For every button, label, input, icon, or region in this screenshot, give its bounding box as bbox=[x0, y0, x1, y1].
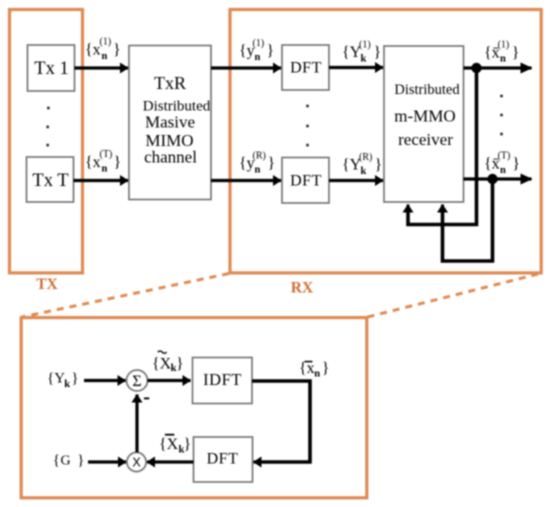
svg-text:receiver: receiver bbox=[398, 130, 453, 149]
svg-text:k: k bbox=[64, 379, 70, 390]
svg-text:TxR: TxR bbox=[154, 73, 186, 93]
svg-text:m-MMO: m-MMO bbox=[394, 107, 455, 126]
svg-text:(T): (T) bbox=[100, 149, 113, 160]
svg-text:RX: RX bbox=[291, 280, 314, 297]
svg-text:k: k bbox=[361, 54, 367, 65]
svg-text:Tx 1: Tx 1 bbox=[34, 59, 68, 79]
svg-text:}: } bbox=[267, 43, 275, 60]
svg-text:{: { bbox=[53, 453, 60, 469]
svg-text:IDFT: IDFT bbox=[203, 370, 242, 389]
svg-text:(1): (1) bbox=[498, 39, 510, 50]
svg-text:}: } bbox=[322, 360, 330, 377]
svg-text:(1): (1) bbox=[100, 37, 112, 48]
svg-text:{Y: {Y bbox=[47, 371, 65, 387]
svg-text:DFT: DFT bbox=[207, 451, 239, 468]
svg-text:n: n bbox=[500, 165, 506, 176]
svg-text:{x: {x bbox=[85, 42, 101, 59]
svg-text:TX: TX bbox=[36, 276, 58, 293]
svg-text:(R): (R) bbox=[253, 151, 266, 162]
svg-text:}: } bbox=[71, 371, 78, 387]
svg-text:{X: {X bbox=[152, 355, 172, 372]
svg-text:}: } bbox=[512, 44, 520, 61]
svg-text:n: n bbox=[102, 51, 108, 62]
svg-text:}: } bbox=[176, 355, 184, 372]
svg-text:{X: {X bbox=[159, 436, 179, 453]
svg-text:n: n bbox=[500, 54, 506, 65]
svg-text:}: } bbox=[77, 453, 84, 469]
svg-text:(1): (1) bbox=[253, 38, 265, 49]
svg-text:G: G bbox=[61, 453, 71, 468]
svg-text:n: n bbox=[255, 52, 261, 63]
svg-text:Tx T: Tx T bbox=[32, 171, 68, 191]
svg-text:n: n bbox=[255, 164, 261, 175]
svg-text:k: k bbox=[361, 166, 367, 177]
svg-text:X: X bbox=[132, 456, 141, 470]
svg-text:}: } bbox=[114, 154, 122, 171]
svg-text:}: } bbox=[374, 44, 382, 61]
svg-text:channel: channel bbox=[144, 148, 197, 167]
svg-text:n: n bbox=[102, 163, 108, 174]
svg-text:DFT: DFT bbox=[290, 60, 322, 77]
svg-text:}: } bbox=[512, 156, 520, 173]
svg-text:Distributed: Distributed bbox=[394, 82, 460, 98]
svg-text:Masive: Masive bbox=[145, 113, 195, 132]
svg-text:DFT: DFT bbox=[290, 173, 322, 190]
svg-text:(T): (T) bbox=[498, 151, 511, 162]
svg-text:}: } bbox=[268, 155, 276, 172]
svg-text:Σ: Σ bbox=[132, 373, 141, 390]
svg-text:}: } bbox=[375, 157, 383, 174]
svg-text:n: n bbox=[314, 368, 320, 379]
svg-text:}: } bbox=[184, 436, 192, 453]
svg-text:(R): (R) bbox=[359, 152, 372, 163]
svg-text:(1): (1) bbox=[359, 39, 371, 50]
svg-text:{x: {x bbox=[85, 154, 101, 171]
svg-text:}: } bbox=[113, 42, 121, 59]
